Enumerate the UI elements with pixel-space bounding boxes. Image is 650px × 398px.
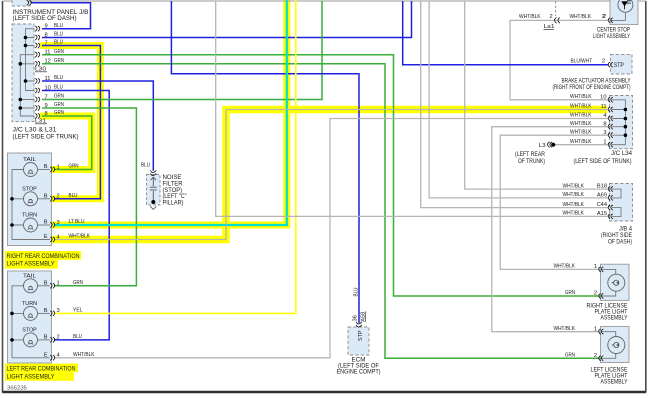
connector pin 10 BLU bbox=[35, 88, 37, 93]
svg-text:A15: A15 bbox=[597, 211, 607, 217]
svg-text:11: 11 bbox=[45, 76, 51, 82]
svg-text:WHT/BLK: WHT/BLK bbox=[570, 113, 592, 119]
wire GRN pin9 L31 to left rear tail bulb bbox=[42, 108, 136, 286]
svg-text:3: 3 bbox=[57, 308, 60, 314]
wire GRN pin12 to left license plate light bbox=[42, 64, 601, 359]
svg-text:WHT/BLK: WHT/BLK bbox=[570, 129, 592, 135]
svg-text:(STOP): (STOP) bbox=[163, 188, 183, 194]
J/C L34 pin 11 WHT/BLK bbox=[611, 107, 613, 112]
svg-text:J/C L34: J/C L34 bbox=[611, 150, 633, 157]
svg-text:8: 8 bbox=[45, 32, 48, 38]
svg-text:B: B bbox=[44, 334, 48, 340]
wire WHT/BLK J/B4 A69 from top edge bbox=[429, 1, 608, 198]
svg-text:GRN: GRN bbox=[54, 110, 64, 116]
svg-text:B: B bbox=[44, 308, 48, 314]
noise filter connector bbox=[150, 170, 156, 172]
svg-text:J/C L30 & L31: J/C L30 & L31 bbox=[13, 127, 58, 134]
wire YEL left rear turn signal to top edge bbox=[54, 0, 296, 313]
svg-text:10: 10 bbox=[600, 94, 606, 100]
svg-text:1: 1 bbox=[57, 164, 60, 170]
highlight LT BLU turn wire (right rear turn to top) bbox=[52, 0, 287, 225]
svg-text:WHT/BLK: WHT/BLK bbox=[554, 264, 576, 270]
svg-text:11: 11 bbox=[601, 104, 607, 110]
left license pin 2 GRN bbox=[601, 356, 603, 361]
svg-text:7: 7 bbox=[45, 94, 48, 100]
brake actuator STP pin 2 connector bbox=[611, 62, 613, 67]
La1 inline connector bbox=[555, 1, 557, 16]
junction connector J/C L34 dashed box bbox=[610, 96, 633, 149]
svg-text:B18: B18 bbox=[597, 184, 607, 190]
wire BLU/WHT from top edge to brake actuator STP bbox=[403, 1, 608, 65]
right rear tail bulb bbox=[24, 163, 38, 177]
right rear combination light assembly box bbox=[8, 153, 52, 246]
svg-text:YEL: YEL bbox=[73, 308, 83, 314]
svg-text:BLU: BLU bbox=[54, 75, 63, 81]
connector pin 7 BLU bbox=[35, 43, 37, 48]
svg-text:ASSEMBLY: ASSEMBLY bbox=[601, 315, 628, 322]
junction dots blue bus bbox=[24, 36, 28, 40]
junction block J/B 4 dashed box bbox=[610, 184, 633, 222]
svg-text:1: 1 bbox=[57, 281, 60, 287]
J/C L34 pin 4 WHT/BLK bbox=[611, 116, 613, 121]
svg-text:TURN: TURN bbox=[22, 213, 37, 219]
J/C L34 pin 3 WHT/BLK bbox=[611, 133, 613, 138]
svg-text:4: 4 bbox=[57, 353, 60, 359]
center stop light assembly box bbox=[610, 0, 638, 25]
wire BLU pin11 L31 to noise filter bbox=[42, 81, 153, 171]
svg-text:GRN: GRN bbox=[54, 58, 64, 64]
svg-text:TAIL: TAIL bbox=[23, 274, 36, 280]
svg-text:1: 1 bbox=[603, 139, 606, 145]
svg-text:E: E bbox=[44, 352, 48, 358]
svg-text:(LEFT SIDE OF TRUNK): (LEFT SIDE OF TRUNK) bbox=[13, 134, 79, 141]
svg-text:STP: STP bbox=[358, 330, 364, 341]
svg-text:11: 11 bbox=[45, 50, 51, 56]
svg-text:OF TRUNK): OF TRUNK) bbox=[518, 158, 545, 165]
svg-text:GRN: GRN bbox=[54, 94, 64, 100]
svg-text:TURN: TURN bbox=[22, 301, 37, 307]
connector pin 7 GRN bbox=[35, 97, 37, 102]
svg-text:L3: L3 bbox=[539, 143, 547, 149]
wire WHT/BLK J/B4 B18 from top edge bbox=[465, 1, 608, 189]
svg-text:BLU: BLU bbox=[54, 23, 63, 29]
left rear tail bulb bbox=[24, 279, 38, 293]
svg-text:365235: 365235 bbox=[7, 385, 27, 391]
connector pin 9 BLU bbox=[35, 26, 37, 31]
left rear stop bulb bbox=[24, 333, 38, 347]
svg-text:2: 2 bbox=[594, 291, 597, 297]
svg-text:36: 36 bbox=[353, 315, 359, 321]
right rear internal ground bus bbox=[12, 170, 50, 240]
svg-text:B: B bbox=[44, 164, 48, 170]
svg-text:STP: STP bbox=[614, 63, 624, 69]
svg-text:(LEFT "C": (LEFT "C" bbox=[163, 194, 187, 200]
right license pin 2 GRN bbox=[601, 293, 603, 298]
wire WHT/BLK J/B4 A15 from top edge bbox=[216, 1, 608, 216]
svg-text:GRN: GRN bbox=[565, 290, 575, 296]
svg-text:GRN: GRN bbox=[73, 280, 83, 286]
center stop internal wire bbox=[610, 12, 625, 20]
svg-text:WHT/BLK: WHT/BLK bbox=[563, 211, 585, 217]
svg-text:2: 2 bbox=[57, 194, 60, 200]
svg-text:WHT/BLK: WHT/BLK bbox=[570, 94, 592, 100]
J/B 4 internal links bbox=[612, 189, 621, 216]
svg-text:NOISE: NOISE bbox=[163, 175, 182, 181]
wire WHT/BLK J/C L34 pin 3 to right license plate light bbox=[500, 135, 608, 269]
svg-text:BLU: BLU bbox=[73, 334, 82, 340]
svg-text:2: 2 bbox=[594, 353, 597, 359]
svg-text:BLU/WHT: BLU/WHT bbox=[571, 59, 593, 65]
svg-text:2: 2 bbox=[550, 14, 553, 20]
J/B 4 pin A69 WHT/BLK bbox=[611, 195, 613, 200]
wire GRN pin11 to right license plate light bbox=[42, 55, 601, 296]
svg-text:BLU: BLU bbox=[54, 32, 63, 38]
svg-text:LIGHT ASSEMBLY: LIGHT ASSEMBLY bbox=[593, 33, 630, 40]
svg-text:(RIGHT FRONT OF ENGINE COMPT): (RIGHT FRONT OF ENGINE COMPT) bbox=[553, 84, 631, 91]
svg-text:A69: A69 bbox=[597, 193, 607, 199]
svg-text:WHT/BLK: WHT/BLK bbox=[570, 121, 592, 127]
wire LT BLU right rear turn signal to top edge bbox=[54, 0, 287, 225]
svg-text:GRN: GRN bbox=[54, 102, 64, 108]
L30 L31 internal blue bus bbox=[26, 29, 35, 91]
connector pin 8 BLU bbox=[35, 35, 37, 40]
svg-text:WHT/BLK: WHT/BLK bbox=[570, 14, 592, 20]
svg-text:12: 12 bbox=[45, 59, 51, 65]
svg-text:TAIL: TAIL bbox=[23, 157, 36, 163]
svg-text:WHT/BLK: WHT/BLK bbox=[69, 234, 91, 240]
right rear turn bulb bbox=[24, 218, 38, 232]
svg-text:WHT/BLK: WHT/BLK bbox=[563, 202, 585, 208]
svg-text:WHT/BLK: WHT/BLK bbox=[570, 104, 592, 110]
svg-text:7: 7 bbox=[45, 40, 48, 46]
svg-text:WHT/BLK: WHT/BLK bbox=[519, 14, 541, 20]
diagram border frame bbox=[2, 1, 4, 393]
J/C L34 bus junction dots bbox=[624, 108, 628, 112]
right license internal wiring bbox=[602, 269, 616, 296]
J/C L34 pin 10 WHT/BLK bbox=[611, 97, 613, 102]
wire BLU stop feed from top edge to ECM bbox=[171, 1, 359, 323]
svg-text:BLU: BLU bbox=[54, 40, 63, 46]
svg-text:FILTER: FILTER bbox=[163, 181, 184, 187]
svg-text:8: 8 bbox=[603, 121, 606, 127]
svg-text:(LEFT SIDE OF DASH): (LEFT SIDE OF DASH) bbox=[13, 15, 77, 22]
connector pin 12 GRN bbox=[35, 61, 37, 66]
center stop pin 2 connector bbox=[611, 18, 613, 23]
right license pin 1 WHT/BLK bbox=[601, 267, 603, 272]
ECM dashed box bbox=[348, 327, 369, 355]
wire WHT/BLK left rear ground to J/C L34 pin 4 bbox=[54, 119, 608, 358]
wire BLU pin8 to top edge bbox=[42, 1, 412, 38]
svg-text:LT BLU: LT BLU bbox=[69, 219, 85, 225]
instrument panel top pin connector bbox=[27, 0, 29, 5]
L30 L31 internal green bus bbox=[20, 55, 34, 116]
svg-text:B: B bbox=[44, 220, 48, 226]
left rear internal ground bus bbox=[12, 286, 50, 358]
svg-text:WHT/BLK: WHT/BLK bbox=[73, 352, 95, 358]
svg-text:WHT/BLK: WHT/BLK bbox=[554, 326, 576, 332]
svg-text:OF DASH): OF DASH) bbox=[608, 239, 632, 246]
wire BLU pin10 L31 to left rear stop bulb bbox=[42, 91, 109, 340]
svg-text:PILLAR): PILLAR) bbox=[163, 201, 184, 207]
wire WHT/BLK J/B4 C44 from top edge bbox=[421, 1, 608, 208]
svg-text:BLU: BLU bbox=[354, 287, 360, 296]
noise filter dashed box bbox=[147, 175, 161, 206]
connector pin 11 GRN bbox=[35, 52, 37, 57]
J/B 4 pin B18 WHT/BLK bbox=[611, 187, 613, 192]
wire WHT/BLK J/C L34 pin 1 to ground L3 bbox=[553, 144, 608, 146]
junction connector J/C L30 and L31 dashed box bbox=[12, 24, 34, 122]
svg-text:2: 2 bbox=[602, 14, 605, 20]
highlight WHT/BLK ground wire (right rear to J/C L34 pin 11) bbox=[52, 110, 608, 240]
J/C L34 internal ground bus bbox=[612, 100, 625, 145]
left license pin 1 WHT/BLK bbox=[601, 329, 603, 334]
J/B 4 pin A15 WHT/BLK bbox=[611, 214, 613, 219]
svg-text:BLU: BLU bbox=[69, 193, 78, 199]
svg-text:STOP: STOP bbox=[22, 187, 37, 193]
svg-text:3: 3 bbox=[57, 220, 60, 226]
left rear turn bulb bbox=[24, 306, 38, 320]
svg-text:RIGHT REAR COMBINATION: RIGHT REAR COMBINATION bbox=[7, 253, 80, 260]
svg-text:2: 2 bbox=[57, 335, 60, 341]
svg-text:8: 8 bbox=[45, 111, 48, 117]
highlight marker left rear combination light assembly label bbox=[5, 364, 78, 373]
J/C L34 pin 1 WHT/BLK bbox=[611, 142, 613, 147]
right license bulb bbox=[608, 274, 625, 291]
svg-text:BLU: BLU bbox=[141, 163, 150, 169]
svg-text:1: 1 bbox=[594, 264, 597, 270]
junction dots green bus bbox=[19, 62, 23, 66]
instrument panel J/B partial dashed box bbox=[12, 0, 30, 6]
svg-text:4: 4 bbox=[57, 234, 60, 240]
svg-text:LIGHT ASSEMBLY: LIGHT ASSEMBLY bbox=[7, 374, 55, 381]
center stop LED bulb bbox=[618, 0, 633, 12]
svg-text:STOP: STOP bbox=[22, 328, 37, 334]
connector pin 9 GRN bbox=[35, 105, 37, 110]
noise filter ground dot bbox=[151, 200, 155, 204]
wire WHT/BLK right rear ground to J/C L34 pin 11 bbox=[54, 110, 608, 240]
svg-text:B: B bbox=[44, 193, 48, 199]
right license plate light assembly box bbox=[601, 264, 630, 300]
wire WHT/BLK center stop light to J/C L34 pin 10 via La1 bbox=[510, 20, 608, 99]
left license internal wiring bbox=[602, 332, 616, 359]
wire GRN pin8 L31 to right rear tail bulb bbox=[42, 116, 92, 170]
svg-text:LEFT REAR COMBINATION: LEFT REAR COMBINATION bbox=[7, 365, 76, 372]
svg-text:B: B bbox=[44, 280, 48, 286]
J/B 4 pin C44 WHT/BLK bbox=[611, 205, 613, 210]
svg-text:9: 9 bbox=[45, 103, 48, 109]
noise filter ground arrow bbox=[150, 206, 156, 209]
svg-text:WHT/BLK: WHT/BLK bbox=[570, 139, 592, 145]
J/C L34 pin 8 WHT/BLK bbox=[611, 124, 613, 129]
highlight marker right rear combination light assembly label bbox=[5, 251, 81, 260]
svg-text:GRN: GRN bbox=[54, 49, 64, 55]
ECM pin connector bbox=[356, 322, 362, 324]
svg-text:LIGHT ASSEMBLY: LIGHT ASSEMBLY bbox=[7, 261, 55, 268]
svg-text:GRN: GRN bbox=[565, 353, 575, 359]
wire GRN pin7 L31 to top edge front tail lights bbox=[42, 1, 322, 100]
svg-text:GRN: GRN bbox=[69, 164, 79, 170]
svg-text:2: 2 bbox=[602, 59, 605, 65]
wire BLU pin7 stop feed to right rear stop bulb bbox=[42, 46, 100, 199]
noise filter capacitor bbox=[150, 178, 157, 203]
left license plate light assembly box bbox=[601, 326, 630, 362]
svg-text:ENGINE COMPT): ENGINE COMPT) bbox=[337, 369, 381, 375]
svg-text:C44: C44 bbox=[597, 202, 607, 208]
svg-text:10: 10 bbox=[45, 85, 51, 91]
highlight stop circuit BLU wire (pin7 to right rear stop) bbox=[40, 46, 100, 199]
right rear stop bulb bbox=[24, 192, 38, 206]
connector pin 11 BLU bbox=[35, 78, 37, 83]
svg-text:4: 4 bbox=[603, 113, 606, 119]
highlight tail circuit GRN wire (pin8 to right rear tail) bbox=[40, 116, 92, 170]
svg-text:3: 3 bbox=[603, 130, 606, 136]
brake actuator STP dashed box bbox=[611, 54, 633, 74]
ground point L3 bbox=[551, 143, 555, 147]
svg-text:9: 9 bbox=[45, 24, 48, 30]
wire WHT/BLK J/C L34 pin 8 to left license plate light bbox=[492, 127, 608, 332]
svg-text:WHT/BLK: WHT/BLK bbox=[563, 183, 585, 189]
svg-text:1: 1 bbox=[594, 326, 597, 332]
svg-text:E: E bbox=[44, 234, 48, 240]
svg-text:(LEFT SIDE OF TRUNK): (LEFT SIDE OF TRUNK) bbox=[574, 158, 632, 165]
svg-text:WHT/BLK: WHT/BLK bbox=[563, 192, 585, 198]
svg-text:ASSEMBLY: ASSEMBLY bbox=[601, 379, 628, 386]
left license bulb bbox=[608, 337, 625, 354]
wire BLU pin9 loop to instrument panel pin bbox=[32, 3, 91, 29]
connector pin 8 GRN bbox=[35, 113, 37, 118]
svg-text:BLU: BLU bbox=[54, 85, 63, 91]
left rear combination light assembly box bbox=[8, 271, 52, 363]
